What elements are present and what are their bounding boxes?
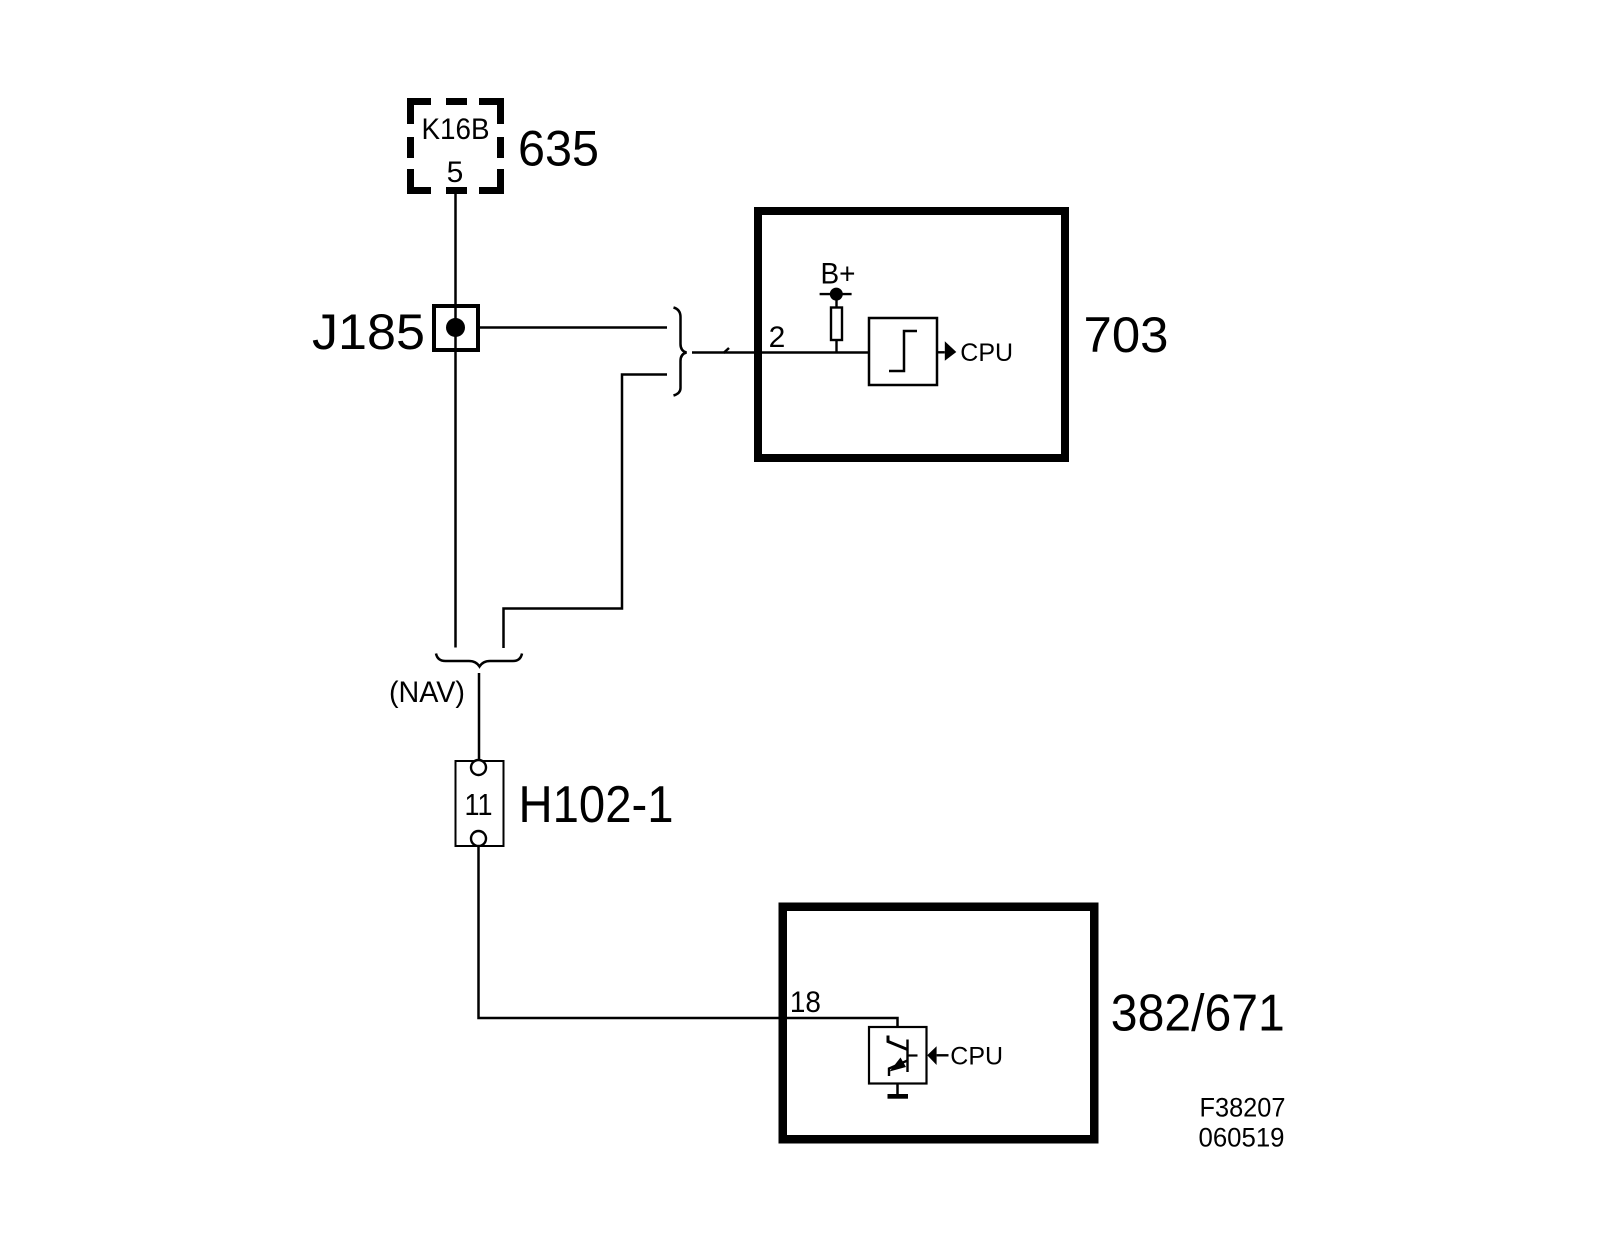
wire transistor to ground — [896, 1084, 899, 1095]
svg-text:CPU: CPU — [960, 339, 1013, 367]
svg-text:635: 635 — [518, 121, 599, 177]
wire brace output into unit 703 pin 2 — [692, 351, 869, 354]
wire schmitt to CPU arrow — [937, 351, 945, 353]
schmitt trigger box U1 — [869, 318, 937, 385]
svg-text:11: 11 — [465, 787, 493, 822]
B+ rail with junction dot — [820, 293, 852, 295]
wire J185 to right brace — [480, 326, 667, 329]
brace (harness merge) right — [674, 308, 687, 396]
unit 703 box — [758, 211, 1065, 458]
wire NAV tail down to connector — [478, 673, 481, 760]
schmitt step symbol — [889, 331, 917, 371]
svg-text:CPU: CPU — [950, 1043, 1003, 1071]
svg-text:H102-1: H102-1 — [519, 776, 674, 834]
svg-text:18: 18 — [790, 986, 821, 1019]
connector box 635 (K16B) dashed — [407, 98, 504, 194]
svg-text:K16B: K16B — [422, 113, 490, 146]
svg-text:F38207: F38207 — [1200, 1093, 1286, 1123]
transistor base bar — [906, 1040, 908, 1073]
arrow from CPU into transistor — [927, 1046, 936, 1065]
splice J185 box — [434, 306, 478, 350]
svg-text:2: 2 — [769, 321, 786, 354]
svg-text:J185: J185 — [312, 304, 425, 360]
transistor emitter arrow — [890, 1058, 907, 1072]
unit 382/671 box — [783, 907, 1095, 1140]
transistor emitter lead — [889, 1061, 908, 1077]
svg-text:060519: 060519 — [1199, 1123, 1285, 1153]
harness underbrace (NAV) — [436, 654, 522, 667]
svg-text:703: 703 — [1084, 307, 1169, 363]
wire CPU label to arrow — [937, 1054, 949, 1056]
svg-text:5: 5 — [447, 156, 464, 189]
wire tick mark — [724, 348, 730, 353]
connector H102-1 box — [456, 761, 504, 846]
ground — [888, 1094, 909, 1099]
svg-text:B+: B+ — [821, 258, 856, 291]
connector pin circle bottom — [471, 831, 486, 846]
wire connector down then right into unit 382/671 pin 18 — [479, 846, 898, 1027]
transistor collector lead — [888, 1036, 908, 1050]
wire lower branch from brace stepping down-left to NAV splice — [504, 375, 668, 649]
wire from K16B pin 5 down through J185 splice — [454, 187, 457, 648]
transistor box Q1 — [869, 1027, 927, 1084]
arrow to CPU — [945, 341, 957, 360]
svg-text:(NAV): (NAV) — [389, 676, 465, 709]
transistor base lead — [908, 1054, 918, 1056]
pull-up resistor — [831, 308, 842, 341]
splice J185 junction dot — [446, 318, 465, 337]
wire B+ to resistor to input line — [835, 294, 837, 352]
connector pin circle top — [471, 760, 486, 775]
svg-text:382/671: 382/671 — [1111, 985, 1285, 1043]
